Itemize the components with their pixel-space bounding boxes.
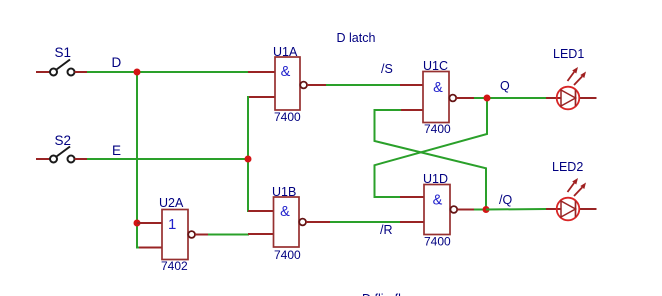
svg-text:7400: 7400 bbox=[274, 248, 301, 262]
svg-text:U1D: U1D bbox=[423, 172, 448, 186]
svg-text:Q: Q bbox=[500, 79, 510, 93]
node U2A input junction bbox=[134, 220, 141, 227]
svg-text:D flip-flop: D flip-flop bbox=[362, 292, 415, 296]
svg-text:7400: 7400 bbox=[274, 110, 301, 124]
led LED2 bbox=[546, 178, 597, 220]
gate U1B bbox=[248, 197, 330, 247]
wire /R bbox=[330, 221, 401, 223]
svg-text:D: D bbox=[112, 55, 122, 70]
svg-text:D latch: D latch bbox=[337, 31, 376, 45]
gate U1A bbox=[248, 57, 326, 110]
svg-text:7400: 7400 bbox=[424, 122, 451, 136]
wire feedback Q to U1D in1 bbox=[375, 98, 488, 197]
svg-text:7402: 7402 bbox=[161, 259, 188, 273]
wire D junction down to U2A bbox=[137, 72, 141, 248]
svg-text:U1A: U1A bbox=[273, 45, 298, 59]
wire U2A out to U1B in2 bbox=[208, 234, 249, 236]
svg-text:S2: S2 bbox=[55, 133, 72, 148]
svg-text:7400: 7400 bbox=[424, 235, 451, 249]
svg-text:LED2: LED2 bbox=[552, 160, 583, 174]
svg-text:&: & bbox=[433, 80, 443, 96]
wire feedback /Q to U1C in2 bbox=[375, 110, 487, 210]
node D junction bbox=[134, 69, 141, 76]
svg-text:/S: /S bbox=[381, 62, 393, 76]
switch S1 bbox=[36, 60, 87, 76]
wire E junction up to U1A in2 bbox=[248, 97, 252, 159]
wire /Q to LED2 bbox=[486, 208, 546, 211]
svg-text:E: E bbox=[112, 143, 121, 158]
svg-text:S1: S1 bbox=[55, 45, 72, 60]
svg-text:LED1: LED1 bbox=[553, 47, 584, 61]
led LED1 bbox=[546, 67, 597, 109]
svg-text:&: & bbox=[281, 64, 291, 80]
gate U1C bbox=[400, 72, 487, 123]
gate U1D bbox=[400, 185, 486, 235]
svg-text:/Q: /Q bbox=[499, 193, 512, 207]
switch S2 bbox=[36, 147, 87, 163]
wire E line bbox=[87, 158, 248, 160]
svg-text:&: & bbox=[433, 193, 443, 209]
wire Q to LED1 bbox=[487, 97, 546, 99]
node /Q bbox=[483, 206, 490, 213]
svg-text:1: 1 bbox=[168, 216, 176, 233]
node E junction bbox=[245, 156, 252, 163]
svg-text:&: & bbox=[280, 204, 290, 220]
wire /S bbox=[326, 84, 401, 86]
wire D line bbox=[87, 71, 249, 73]
svg-text:/R: /R bbox=[380, 223, 393, 237]
gate U2A bbox=[137, 210, 208, 260]
node Q bbox=[484, 95, 491, 102]
svg-text:U2A: U2A bbox=[159, 196, 184, 210]
svg-text:U1B: U1B bbox=[272, 185, 296, 199]
svg-text:U1C: U1C bbox=[423, 59, 448, 73]
wire E junction down to U1B in1 bbox=[248, 159, 252, 211]
